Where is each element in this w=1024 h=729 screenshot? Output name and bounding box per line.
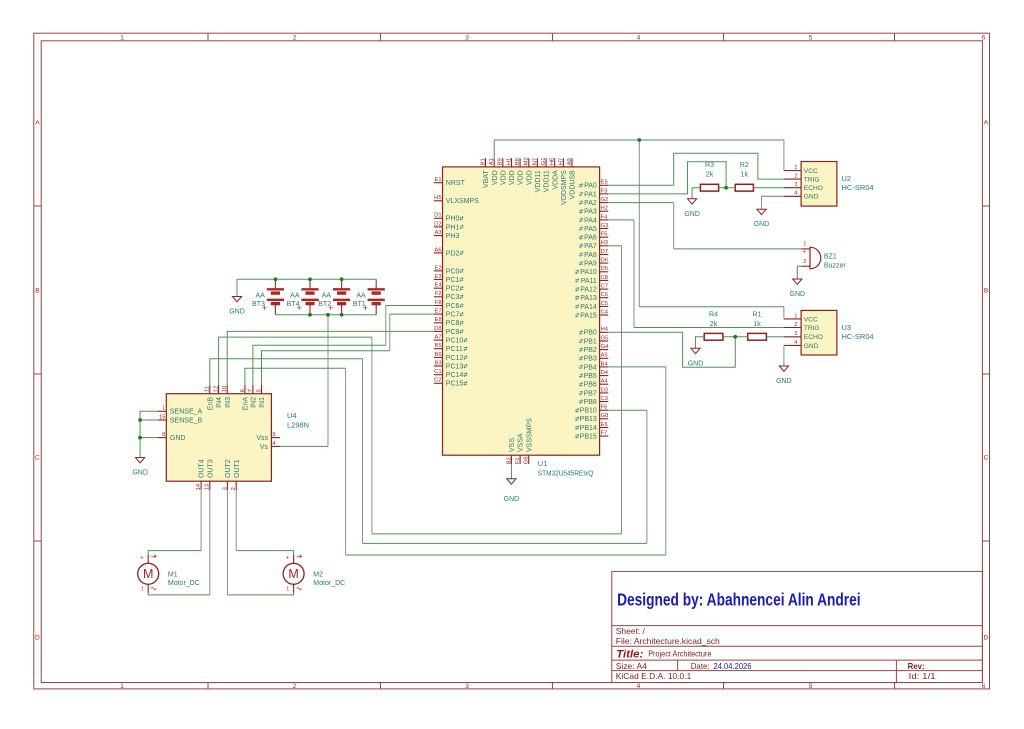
wire U3 GND pin to ground xyxy=(783,345,785,366)
svg-text:Size: A4: Size: A4 xyxy=(616,661,647,671)
svg-text:2: 2 xyxy=(293,683,297,690)
U1 pin F3 PA1 xyxy=(579,188,608,198)
svg-text:IN2: IN2 xyxy=(251,397,258,408)
svg-text:E6: E6 xyxy=(601,422,608,428)
svg-text:PC12: PC12 xyxy=(446,355,464,362)
U1 pin H3 PA7 xyxy=(579,240,608,250)
svg-text:6: 6 xyxy=(982,683,986,690)
svg-text:OUT2: OUT2 xyxy=(225,459,232,478)
U1 pin D7 PA8 xyxy=(579,249,608,259)
svg-text:G3: G3 xyxy=(601,223,609,229)
svg-text:GND: GND xyxy=(776,378,792,385)
svg-text:B2: B2 xyxy=(506,457,512,464)
wire U2 GND pin to ground xyxy=(762,196,784,209)
svg-text:NRST: NRST xyxy=(446,180,466,187)
wire battery bottom rail xyxy=(275,314,376,316)
svg-text:PA10: PA10 xyxy=(580,269,597,276)
U1 pin A3 PH3 xyxy=(434,230,460,240)
U1 pin H4 PB0 xyxy=(579,327,609,337)
junction at 275,279 xyxy=(274,277,278,281)
svg-text:H5: H5 xyxy=(434,195,441,201)
svg-text:PC2: PC2 xyxy=(446,286,460,293)
svg-text:D6: D6 xyxy=(601,258,608,264)
svg-text:2: 2 xyxy=(794,322,797,328)
ground symbol R4 xyxy=(688,348,704,367)
svg-text:D2: D2 xyxy=(434,221,441,227)
svg-text:E8: E8 xyxy=(435,317,442,323)
svg-text:A6: A6 xyxy=(435,247,442,253)
svg-text:7: 7 xyxy=(248,389,254,392)
svg-text:PB13: PB13 xyxy=(580,416,597,423)
U4 pin 4 Vs xyxy=(260,441,280,451)
U1 pin C4 PA15 xyxy=(575,309,608,319)
wire R2 to U2 ECHO xyxy=(753,187,784,189)
U4 bottom pin 3 OUT2 xyxy=(222,459,232,490)
U1 pin F5 PA6 xyxy=(579,232,608,242)
U1 pin B4 PB4 xyxy=(579,361,608,371)
svg-text:B5: B5 xyxy=(435,343,442,349)
svg-text:OUT3: OUT3 xyxy=(207,459,214,478)
U1 pin G4 PB2 xyxy=(579,344,609,354)
svg-text:HC-SR04: HC-SR04 xyxy=(842,183,874,192)
svg-text:EnA: EnA xyxy=(243,397,250,411)
battery BT1 AA xyxy=(353,279,385,315)
U4 pin 9 Vss xyxy=(256,432,280,442)
wire U4 OUT3 to M1 minus xyxy=(148,490,210,595)
svg-text:PA3: PA3 xyxy=(584,209,597,216)
U1 pin G5 PB1 xyxy=(579,335,608,345)
svg-text:B9: B9 xyxy=(498,158,504,165)
svg-text:ECHO: ECHO xyxy=(804,334,823,341)
svg-text:AA: AA xyxy=(256,292,266,299)
svg-text:13: 13 xyxy=(205,484,211,490)
svg-text:Motor_DC: Motor_DC xyxy=(168,580,200,587)
svg-text:PB5: PB5 xyxy=(584,373,597,380)
svg-text:VDD: VDD xyxy=(526,170,533,185)
junction at 342,315 xyxy=(340,313,344,317)
svg-text:E5: E5 xyxy=(601,180,608,186)
U1 bottom pin G6 VSSSMPS xyxy=(524,418,534,464)
junction at 310,279 xyxy=(308,277,312,281)
U1 pin G3 PA5 xyxy=(579,223,608,233)
U4 top pin 6 EnA xyxy=(240,385,250,410)
svg-text:B8: B8 xyxy=(515,158,521,165)
svg-text:PA12: PA12 xyxy=(580,287,597,294)
U4 bottom pin 13 OUT3 xyxy=(205,459,215,490)
U1 pin F6 PB10 xyxy=(575,405,608,415)
junction at 140,438 xyxy=(138,436,142,440)
svg-text:3: 3 xyxy=(794,182,797,188)
svg-text:AA: AA xyxy=(290,292,300,299)
U1 pin E6 PB14 xyxy=(575,422,608,432)
svg-text:6: 6 xyxy=(240,389,246,392)
svg-text:PD2: PD2 xyxy=(446,250,460,257)
svg-text:PC15: PC15 xyxy=(446,381,464,388)
svg-text:GND: GND xyxy=(804,194,819,201)
U1 pin H5 VLXSMPS xyxy=(434,195,479,205)
U2 pin 4 GND xyxy=(784,191,819,201)
battery BT2 AA xyxy=(318,279,350,315)
svg-text:PA1: PA1 xyxy=(584,191,597,198)
U3 pin 3 ECHO xyxy=(784,331,823,341)
svg-text:C8: C8 xyxy=(601,275,608,281)
svg-text:E2: E2 xyxy=(435,265,442,271)
junction at 310,315 xyxy=(308,313,312,317)
wire PA4 to U3 TRIG xyxy=(608,220,784,328)
svg-text:Rev:: Rev: xyxy=(908,661,925,671)
MCU U1 STM32U545REIxQ body xyxy=(443,167,600,478)
svg-text:E3: E3 xyxy=(435,274,442,280)
U1 pin H2 PA3 xyxy=(579,206,608,216)
U1 pin A4 PB6 xyxy=(579,379,608,389)
svg-text:PB1: PB1 xyxy=(584,338,597,345)
svg-text:GND: GND xyxy=(790,291,806,298)
svg-text:1k: 1k xyxy=(741,172,749,179)
svg-text:M: M xyxy=(143,567,153,581)
ultrasonic sensor U3 HC-SR04 body xyxy=(801,310,873,355)
svg-text:AA: AA xyxy=(322,292,332,299)
svg-text:PC8: PC8 xyxy=(446,320,460,327)
svg-text:PH0: PH0 xyxy=(446,216,460,223)
svg-text:D: D xyxy=(984,635,989,642)
wire PA7 to U4 IN4 xyxy=(219,246,622,534)
junction at 342,279 xyxy=(340,277,344,281)
U1 top pin A9 VDDUSB xyxy=(567,158,577,199)
ground symbol R3 xyxy=(684,199,700,218)
svg-text:B1: B1 xyxy=(480,158,486,165)
svg-text:PA8: PA8 xyxy=(584,252,597,259)
U1 pin E4 PC2 xyxy=(434,283,464,293)
U1 pin D2 PH1 xyxy=(434,221,464,231)
svg-text:2k: 2k xyxy=(706,172,714,179)
svg-text:1: 1 xyxy=(794,313,797,319)
svg-text:G1: G1 xyxy=(541,158,547,166)
wire VDD to U2 VCC xyxy=(494,140,784,171)
svg-text:BZ1: BZ1 xyxy=(824,253,837,260)
svg-text:D: D xyxy=(35,635,40,642)
svg-text:B: B xyxy=(35,288,39,295)
svg-text:G4: G4 xyxy=(601,344,610,350)
svg-text:2: 2 xyxy=(794,174,797,180)
U1 pin D6 PA9 xyxy=(579,258,608,268)
svg-text:1: 1 xyxy=(120,35,124,42)
svg-text:PA14: PA14 xyxy=(580,304,597,311)
wire PB4 to U4 EnA xyxy=(245,367,666,555)
svg-text:H3: H3 xyxy=(601,240,608,246)
svg-text:R2: R2 xyxy=(740,162,749,169)
U1 pin F4 PA4 xyxy=(579,214,608,224)
svg-text:B: B xyxy=(984,288,988,295)
svg-text:M2: M2 xyxy=(524,157,530,165)
svg-text:5: 5 xyxy=(256,389,262,392)
U1 pin E8 PC8 xyxy=(434,317,464,327)
junction at 328,315 xyxy=(326,313,330,317)
U1 top pin H6 VDDA xyxy=(550,158,560,190)
svg-text:6: 6 xyxy=(982,35,986,42)
U1 pin A7 PC10 xyxy=(434,335,468,345)
svg-text:VDD11: VDD11 xyxy=(544,170,551,192)
wire PA1 to R2/R3 junction xyxy=(608,162,726,194)
svg-text:2: 2 xyxy=(293,35,297,42)
wire U4 SENSE/GND to ground xyxy=(140,411,158,457)
U1 pin D8 PC9 xyxy=(434,326,464,336)
svg-text:H4: H4 xyxy=(601,327,609,333)
svg-text:+: + xyxy=(328,303,333,313)
svg-text:5: 5 xyxy=(809,683,813,690)
U1 pin E2 PC0 xyxy=(434,265,464,275)
svg-text:PC1: PC1 xyxy=(446,277,460,284)
U4 pin 8 GND xyxy=(158,432,186,442)
svg-text:M1: M1 xyxy=(168,571,178,578)
U1 top pin H7 VDDSMPS xyxy=(558,158,568,205)
wire PA2 to buzzer pin 1 xyxy=(608,203,801,249)
svg-text:11: 11 xyxy=(205,386,211,392)
junction at 726,188 xyxy=(724,186,728,190)
svg-text:VDD: VDD xyxy=(492,170,499,185)
svg-text:F7: F7 xyxy=(601,431,608,437)
svg-text:GND: GND xyxy=(688,361,704,368)
svg-text:PA4: PA4 xyxy=(584,217,597,224)
U3 pin 1 VCC xyxy=(784,313,818,323)
svg-text:A1: A1 xyxy=(489,158,495,165)
svg-text:5: 5 xyxy=(809,35,813,42)
svg-text:File: Architecture.kicad_sch: File: Architecture.kicad_sch xyxy=(616,636,720,646)
resistor R3 2k xyxy=(700,162,718,191)
svg-text:PC13: PC13 xyxy=(446,363,464,370)
svg-text:VCC: VCC xyxy=(804,168,818,175)
U4 top pin 7 IN2 xyxy=(248,385,258,408)
svg-text:Motor_DC: Motor_DC xyxy=(313,580,345,587)
U1 bottom pin B2 VSS xyxy=(506,438,516,465)
U1 pin G2 PA2 xyxy=(579,197,608,207)
ground symbol buzzer xyxy=(790,279,806,298)
wire VDD branch to U3 VCC xyxy=(639,140,784,319)
U2 pin 3 ECHO xyxy=(784,182,823,192)
svg-text:1: 1 xyxy=(162,406,165,412)
U4 pin 15 SENSE_B xyxy=(158,414,203,424)
svg-text:H1: H1 xyxy=(506,158,512,165)
wire U4 OUT1 to M2 plus xyxy=(236,490,293,555)
U1 top pin B8 VDD xyxy=(515,158,525,185)
svg-text:PB14: PB14 xyxy=(580,425,597,432)
U1 pin A6 PD2 xyxy=(434,247,464,257)
svg-text:C3: C3 xyxy=(601,396,608,402)
U2 pin 1 VCC xyxy=(784,165,818,175)
ground symbol U3 xyxy=(776,366,792,385)
svg-text:ECHO: ECHO xyxy=(804,185,823,192)
svg-text:VDD11: VDD11 xyxy=(535,170,542,192)
svg-text:PA5: PA5 xyxy=(584,226,597,233)
svg-text:F8: F8 xyxy=(435,300,442,306)
svg-text:VSSA: VSSA xyxy=(518,433,525,452)
svg-text:GND: GND xyxy=(684,211,700,218)
resistor R4 2k xyxy=(704,311,723,340)
svg-text:A: A xyxy=(984,120,989,127)
svg-text:+: + xyxy=(286,556,290,562)
svg-text:12: 12 xyxy=(214,386,220,392)
svg-text:D3: D3 xyxy=(601,387,608,393)
svg-text:PC10: PC10 xyxy=(446,338,464,345)
svg-text:VDD: VDD xyxy=(509,170,516,185)
svg-text:SENSE_A: SENSE_A xyxy=(170,409,203,416)
U1 top pin B1 VBAT xyxy=(480,158,490,188)
U1 pin E1 NRST xyxy=(434,177,466,187)
svg-text:PC7: PC7 xyxy=(446,312,460,319)
svg-text:Date:: Date: xyxy=(691,661,710,671)
U1 pin F7 PB15 xyxy=(575,431,608,441)
motor driver U4 L298N body xyxy=(166,394,309,482)
svg-text:15: 15 xyxy=(159,414,165,420)
svg-text:HC-SR04: HC-SR04 xyxy=(842,332,874,341)
wire R3 to ground xyxy=(692,188,700,199)
svg-text:F4: F4 xyxy=(601,214,609,220)
svg-text:PB7: PB7 xyxy=(584,390,597,397)
svg-text:F2: F2 xyxy=(435,291,442,297)
svg-text:U4: U4 xyxy=(287,411,297,420)
svg-text:A4: A4 xyxy=(601,379,609,385)
svg-text:24.04.2026: 24.04.2026 xyxy=(714,661,752,671)
wire R4 to ground xyxy=(696,337,705,349)
battery BT4 AA xyxy=(287,279,319,315)
svg-text:C: C xyxy=(35,455,40,462)
svg-text:F3: F3 xyxy=(601,188,608,194)
U3 pin 2 TRIG xyxy=(784,322,820,332)
svg-text:H7: H7 xyxy=(558,158,564,165)
svg-text:Buzzer: Buzzer xyxy=(824,262,846,269)
U1 pin D1 PH0 xyxy=(434,213,464,223)
svg-text:PC0: PC0 xyxy=(446,268,460,275)
svg-text:F1: F1 xyxy=(515,458,521,465)
svg-text:IN1: IN1 xyxy=(259,397,266,408)
svg-text:PC3: PC3 xyxy=(446,294,460,301)
svg-text:3: 3 xyxy=(794,331,797,337)
U1 top pin N7 VDD11 xyxy=(532,158,542,192)
wire U4 OUT4 to M1 plus xyxy=(148,490,201,555)
U1 top pin M2 VDD xyxy=(524,157,534,185)
svg-text:PB6: PB6 xyxy=(584,382,597,389)
U4 top pin 5 IN1 xyxy=(256,385,266,408)
U3 pin 4 GND xyxy=(784,340,819,350)
svg-text:PA7: PA7 xyxy=(584,243,597,250)
svg-text:N7: N7 xyxy=(532,158,538,165)
svg-text:Vss: Vss xyxy=(256,435,268,442)
svg-text:PA6: PA6 xyxy=(584,235,597,242)
svg-text:A3: A3 xyxy=(435,230,442,236)
svg-text:B3: B3 xyxy=(435,360,442,366)
U1 pin E5 PA0 xyxy=(579,180,608,190)
svg-text:A9: A9 xyxy=(567,158,573,165)
svg-text:+: + xyxy=(363,303,368,313)
svg-text:VDDUSB: VDDUSB xyxy=(570,170,577,200)
svg-text:+: + xyxy=(140,556,144,562)
svg-text:M2: M2 xyxy=(313,571,323,578)
buzzer BZ1 xyxy=(801,242,846,270)
svg-text:+: + xyxy=(262,303,267,313)
svg-text:C7: C7 xyxy=(601,284,608,290)
svg-text:OUT4: OUT4 xyxy=(199,459,206,478)
svg-text:1: 1 xyxy=(120,683,124,690)
svg-text:M: M xyxy=(288,567,298,581)
U4 top pin 10 IN3 xyxy=(222,385,232,408)
U4 pin 1 SENSE_A xyxy=(158,406,203,416)
svg-text:VDDSMPS: VDDSMPS xyxy=(561,170,568,205)
svg-text:PB15: PB15 xyxy=(580,434,597,441)
wire PC7 to U4 IN1 xyxy=(262,314,434,385)
svg-text:GND: GND xyxy=(170,435,186,442)
svg-text:IN4: IN4 xyxy=(216,397,223,408)
svg-text:C4: C4 xyxy=(601,309,609,315)
wire PC6 to U4 IN2 xyxy=(253,306,434,386)
svg-text:Title:: Title: xyxy=(616,649,643,661)
svg-text:Vs: Vs xyxy=(260,444,269,451)
svg-text:GND: GND xyxy=(804,343,819,350)
svg-text:VSS: VSS xyxy=(509,438,516,452)
wire PA0 to U2 TRIG xyxy=(608,153,784,185)
svg-text:D1: D1 xyxy=(434,213,441,219)
svg-text:PA15: PA15 xyxy=(580,312,597,319)
junction at 140,420 xyxy=(138,418,142,422)
U1 pin G8 PB13 xyxy=(575,413,608,423)
U1 pin B5 PC11 xyxy=(434,343,468,353)
ground symbol U2 xyxy=(754,209,770,228)
junction at 639,140 xyxy=(637,138,641,142)
svg-text:Designed by: Abahnencei Alin A: Designed by: Abahnencei Alin Andrei xyxy=(617,590,861,610)
battery BT3 AA xyxy=(252,279,284,315)
motor M2 Motor_DC xyxy=(283,555,345,593)
svg-text:C2: C2 xyxy=(434,378,441,384)
svg-text:10: 10 xyxy=(222,386,228,392)
svg-text:2: 2 xyxy=(803,259,806,265)
U1 bottom pin F1 VSSA xyxy=(515,433,525,464)
U1 pin D3 PB7 xyxy=(579,387,608,397)
svg-text:L298N: L298N xyxy=(287,421,309,430)
wire R1 to U3 ECHO xyxy=(766,336,784,338)
svg-text:EnB: EnB xyxy=(207,397,214,411)
svg-text:A5: A5 xyxy=(601,353,608,359)
svg-text:1k: 1k xyxy=(753,321,761,328)
U1 pin F8 PC6 xyxy=(434,300,464,310)
svg-text:U1: U1 xyxy=(538,459,548,468)
wire R3 to R2 xyxy=(719,187,736,189)
U4 top pin 11 EnB xyxy=(205,385,215,410)
svg-text:PA0: PA0 xyxy=(584,183,597,190)
wire battery top rail xyxy=(237,279,376,296)
svg-text:PH1: PH1 xyxy=(446,224,460,231)
svg-text:TRIG: TRIG xyxy=(804,177,820,184)
svg-text:C: C xyxy=(984,455,989,462)
wire R4 to R1 xyxy=(723,336,748,338)
svg-text:C5: C5 xyxy=(601,301,608,307)
svg-text:G2: G2 xyxy=(601,197,609,203)
svg-text:E1: E1 xyxy=(435,177,442,183)
svg-text:R4: R4 xyxy=(709,311,718,318)
svg-text:8: 8 xyxy=(162,432,165,438)
svg-text:PH3: PH3 xyxy=(446,233,460,240)
svg-text:C1: C1 xyxy=(434,369,441,375)
svg-text:D7: D7 xyxy=(601,249,608,255)
svg-text:OUT1: OUT1 xyxy=(234,459,241,478)
resistor R1 1k xyxy=(748,311,767,340)
wire U4 OUT2 to M2 minus xyxy=(227,490,293,595)
U1 pin D4 PB5 xyxy=(579,370,609,380)
resistor R2 1k xyxy=(735,162,753,191)
U4 bottom pin 2 OUT1 xyxy=(231,459,241,490)
svg-text:14: 14 xyxy=(196,483,202,490)
svg-text:VLXSMPS: VLXSMPS xyxy=(446,198,479,205)
svg-text:4: 4 xyxy=(637,683,641,690)
svg-text:PB10: PB10 xyxy=(580,408,597,415)
svg-text:E7: E7 xyxy=(435,309,442,315)
